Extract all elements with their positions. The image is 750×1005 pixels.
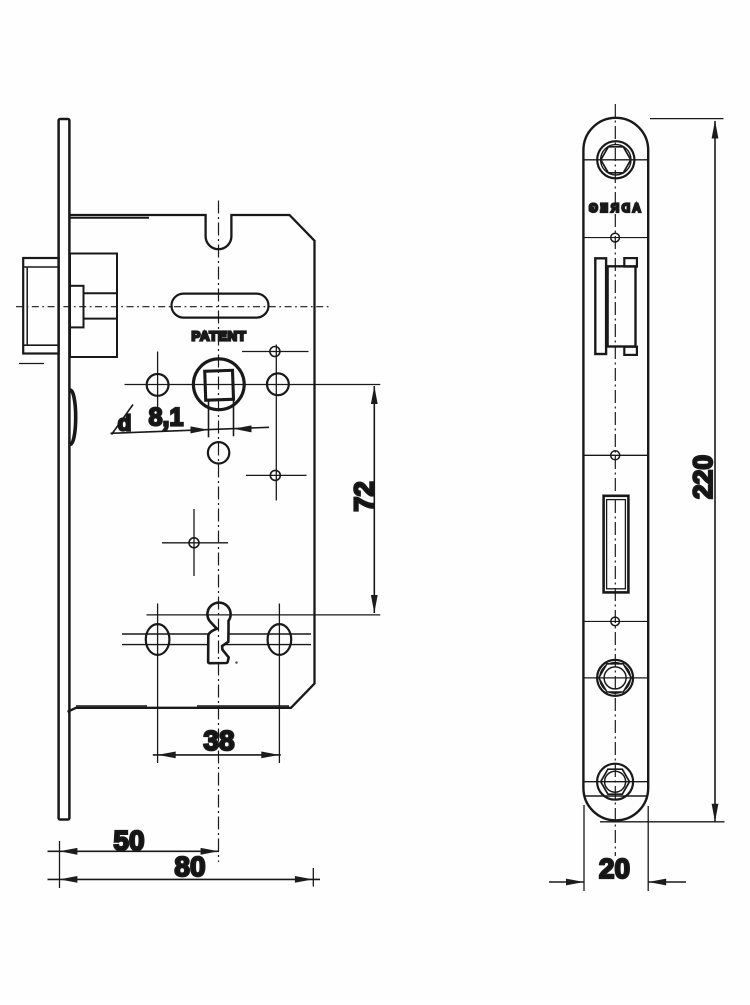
striker faceplate outline: [583, 118, 648, 821]
screw hole bottom: [597, 764, 633, 800]
latch notch bottom: [624, 347, 637, 355]
screw hole cross left: [189, 538, 199, 548]
faceplate side strip: [59, 119, 70, 820]
latch bolt hub: [70, 286, 84, 328]
node keyhole centerline: [147, 614, 381, 616]
svg-text:38: 38: [203, 725, 234, 756]
speck dot: [235, 661, 237, 663]
svg-text:220: 220: [688, 455, 718, 499]
oval slot: [172, 294, 269, 318]
screw hole cross a: [611, 233, 620, 242]
svg-text:E: E: [600, 203, 608, 215]
faceplate bottom chord: [584, 795, 648, 797]
fixing hole oval left: [146, 624, 170, 655]
wire slot line lower: [122, 644, 311, 646]
lock case outline: [68, 215, 315, 712]
svg-text:50: 50: [113, 825, 144, 856]
screw hole cross top: [270, 347, 280, 357]
hole below follower: [208, 442, 229, 463]
dimension 72: [373, 386, 375, 613]
svg-text:80: 80: [174, 851, 205, 882]
svg-text:A: A: [632, 203, 640, 215]
svg-text:R: R: [610, 203, 619, 215]
node follower centerline: [125, 384, 381, 386]
fixing hole oval right: [268, 624, 292, 655]
dimension 20: [583, 805, 585, 891]
svg-text:G: G: [589, 203, 598, 215]
follower square spindle hole: [205, 370, 234, 400]
deadbolt opening: [604, 496, 629, 593]
latch bolt body: [70, 254, 117, 358]
screw hole cross b: [611, 617, 620, 626]
latch opening left wall: [595, 258, 606, 354]
node faceplate centerline: [614, 104, 616, 856]
dimension 80: [48, 878, 321, 880]
screw hole top: [597, 141, 634, 178]
latch notch top: [624, 258, 637, 267]
dimension 220: [650, 118, 724, 120]
case top edge thick segment: [70, 217, 149, 219]
dimension 38: [153, 754, 281, 756]
latch bolt tail: [84, 292, 118, 294]
svg-text:D: D: [622, 203, 630, 215]
svg-text:8,1: 8,1: [149, 404, 184, 432]
latch bolt face: [608, 266, 636, 346]
deadbolt face bulge: [71, 390, 76, 444]
dimension 50: [48, 850, 220, 852]
hole right circle: [267, 373, 289, 395]
hole left circle: [147, 374, 169, 396]
dimension 8,1: [111, 401, 270, 438]
screw hole mid: [597, 660, 633, 696]
latch bolt head: [23, 258, 58, 354]
wire slot line upper: [122, 633, 311, 635]
screw hole cross mid: [270, 470, 280, 480]
node latch centerline: [16, 306, 329, 308]
wire small ledge line: [19, 363, 44, 365]
keyhole: [207, 603, 230, 664]
node main vertical centerline: [218, 201, 220, 863]
svg-text:72: 72: [349, 481, 380, 512]
svg-text:20: 20: [599, 853, 630, 884]
screw hole cross mid-plate: [611, 451, 620, 460]
follower circle U: [193, 359, 244, 410]
case bottom step line: [76, 705, 147, 707]
logo GERDA mirrored letters: [589, 203, 641, 215]
svg-text:d: d: [118, 411, 132, 436]
